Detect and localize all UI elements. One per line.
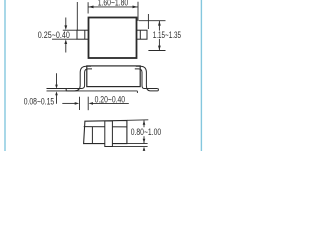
svg-text:1.15~1.35: 1.15~1.35	[153, 30, 181, 40]
svg-text:1.60~1.80: 1.60~1.80	[98, 0, 129, 7]
svg-text:0.80~1.00: 0.80~1.00	[131, 127, 162, 137]
svg-text:0.25~0.40: 0.25~0.40	[38, 30, 70, 40]
svg-text:0.08~0.15: 0.08~0.15	[24, 96, 55, 106]
svg-text:0.20~0.40: 0.20~0.40	[95, 95, 126, 105]
